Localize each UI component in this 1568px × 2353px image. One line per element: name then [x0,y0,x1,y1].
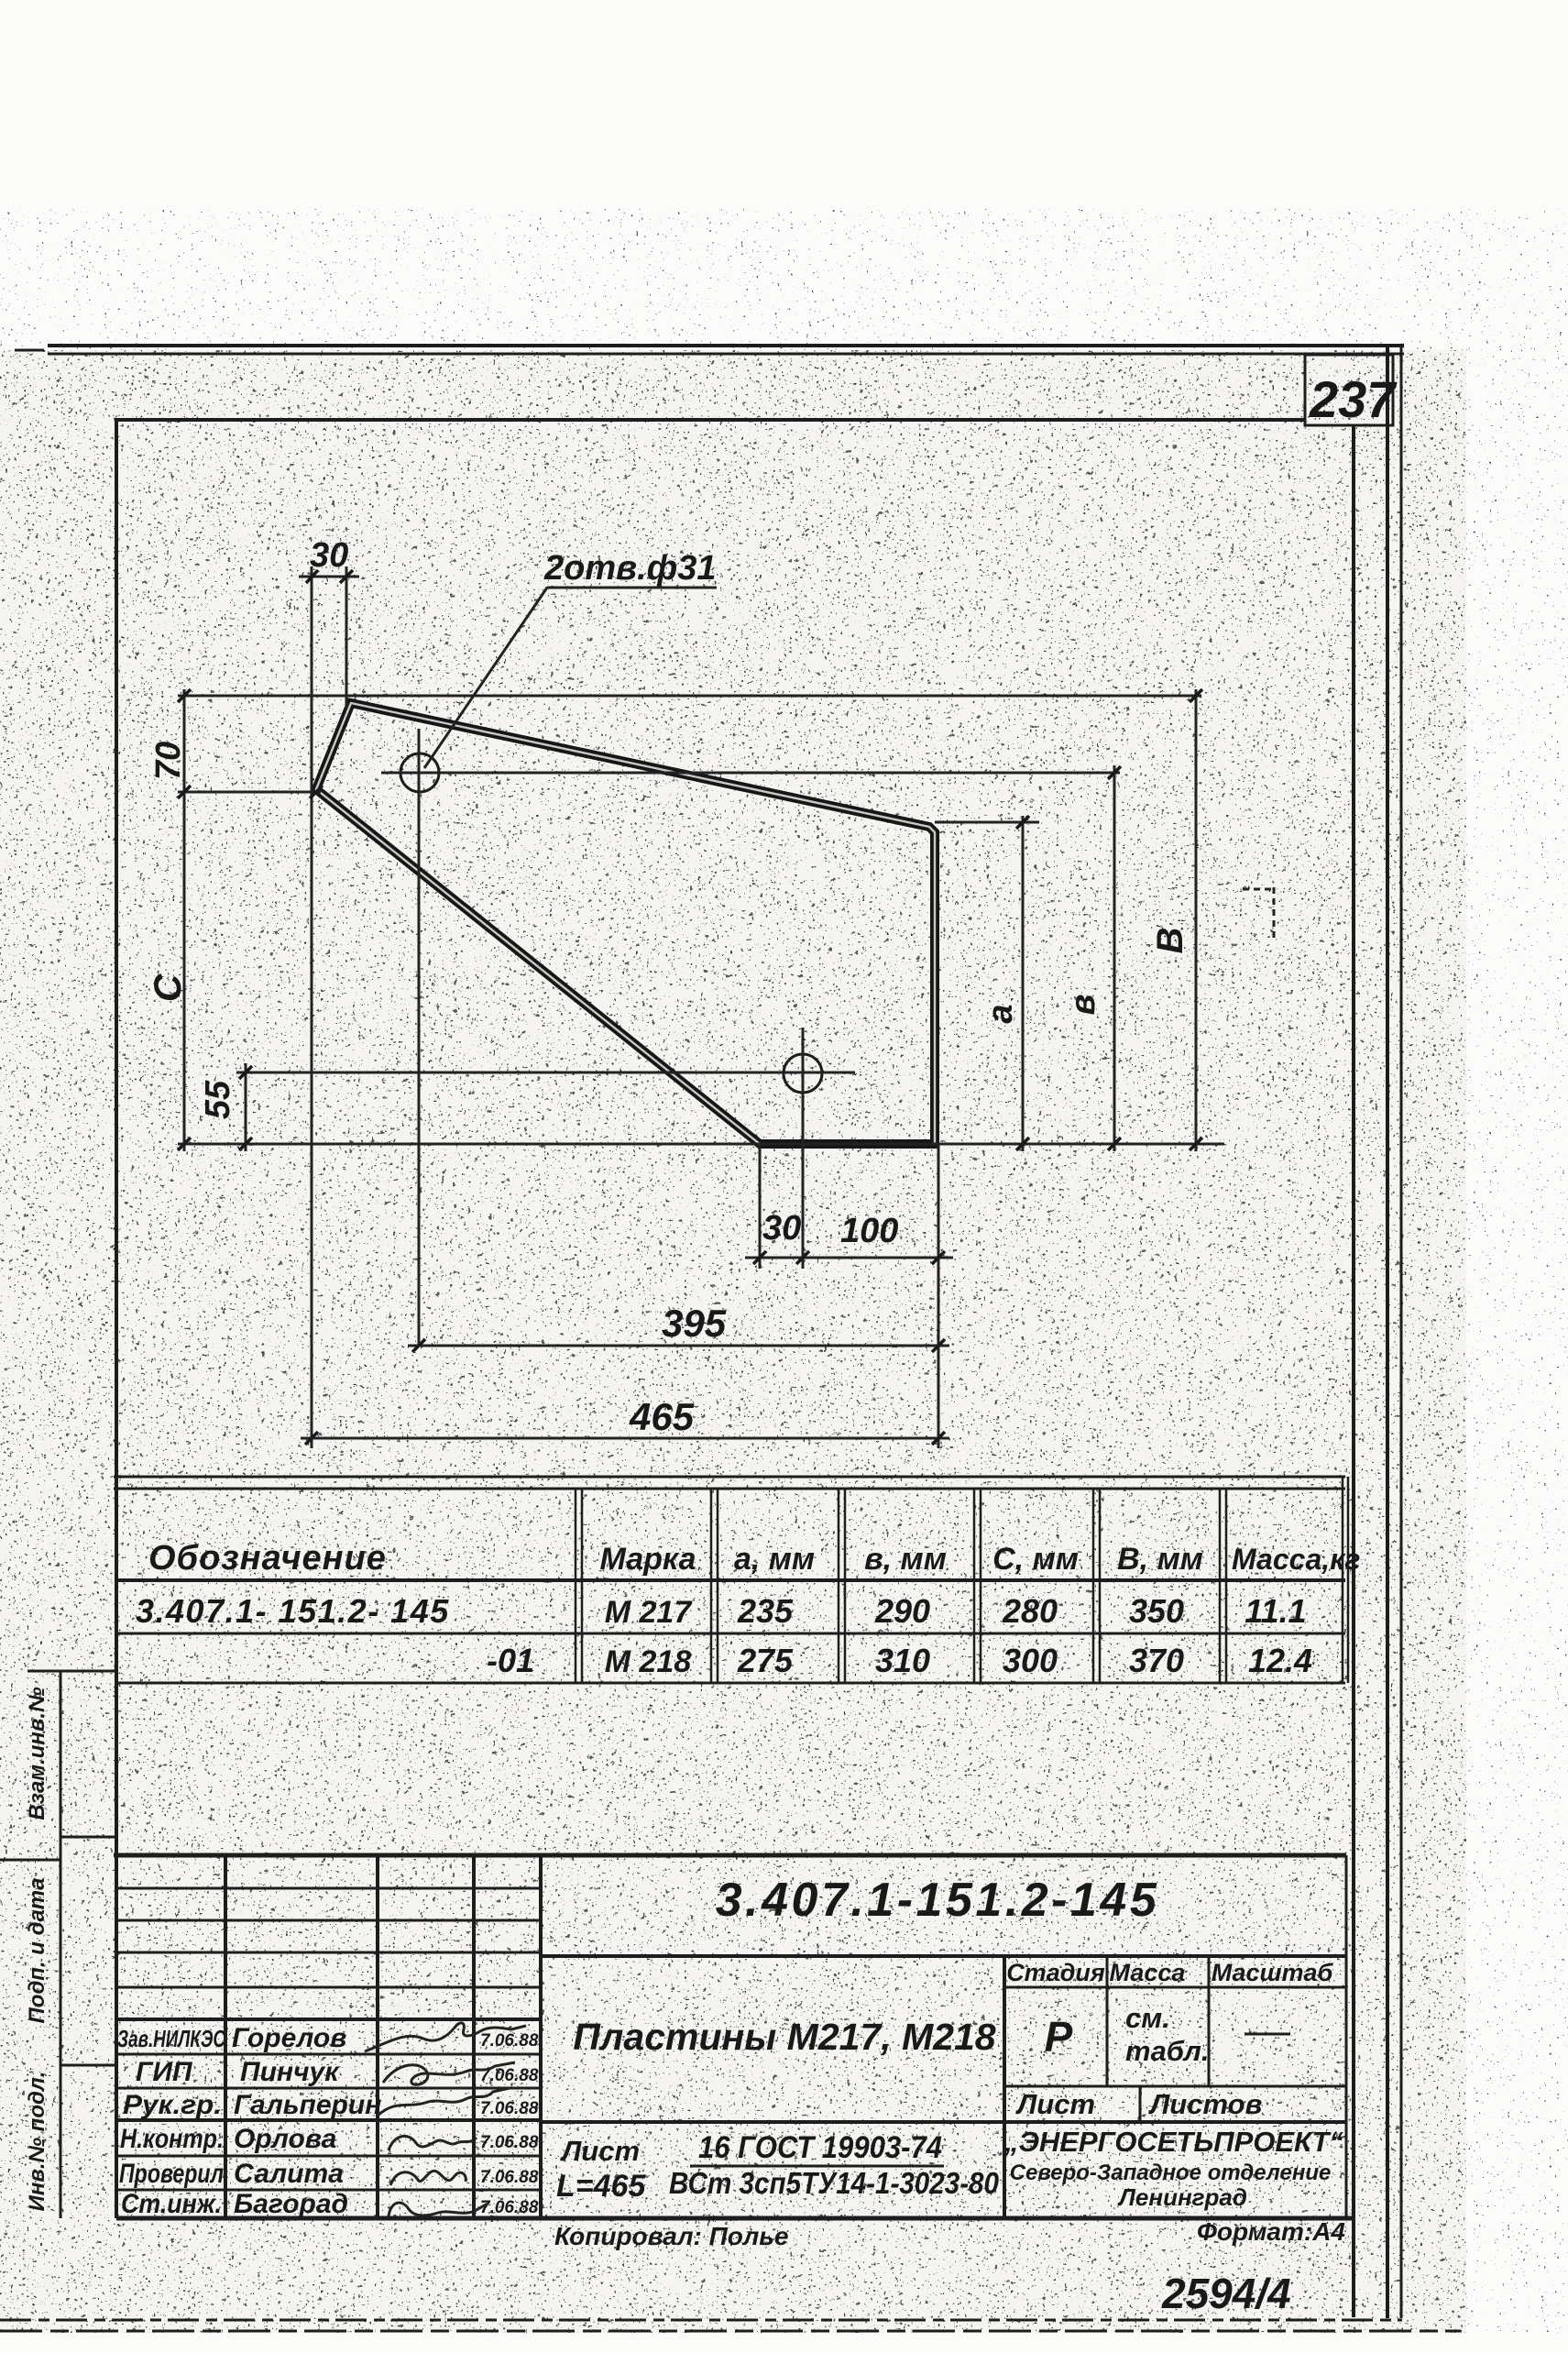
svg-text:Взам.инв.№: Взам.инв.№ [25,1687,49,1820]
svg-text:Подп. и дата: Подп. и дата [25,1878,49,2024]
svg-text:370: 370 [1129,1642,1184,1679]
svg-text:2594/4: 2594/4 [1161,2270,1291,2317]
svg-text:7.06.88: 7.06.88 [480,2133,539,2152]
svg-text:Листов: Листов [1148,2088,1262,2120]
svg-text:Пластины М217, М218: Пластины М217, М218 [573,2016,995,2058]
svg-text:7.06.88: 7.06.88 [480,2031,539,2051]
svg-text:7.06.88: 7.06.88 [480,2168,539,2187]
svg-text:350: 350 [1129,1592,1184,1630]
svg-text:16 ГОСТ 19903-74: 16 ГОСТ 19903-74 [698,2130,942,2165]
svg-text:Масса: Масса [1110,1959,1186,1986]
svg-text:395: 395 [662,1302,727,1345]
svg-text:300: 300 [1003,1642,1058,1679]
svg-text:а, мм: а, мм [734,1542,815,1577]
svg-text:465: 465 [629,1395,695,1438]
svg-text:Зав.НИЛКЭС: Зав.НИЛКЭС [117,2025,226,2052]
svg-text:30: 30 [762,1209,801,1248]
svg-text:30: 30 [310,536,348,575]
svg-text:а: а [981,1004,1020,1023]
svg-text:Марка: Марка [600,1542,696,1577]
svg-text:Инв.№ подл.: Инв.№ подл. [25,2072,49,2212]
svg-text:275: 275 [737,1642,794,1679]
svg-text:ВСт 3сп5ТУ14-1-3023-80: ВСт 3сп5ТУ14-1-3023-80 [669,2166,1000,2200]
svg-text:М 217: М 217 [605,1595,694,1630]
svg-text:Копировал: Полье: Копировал: Полье [554,2222,789,2250]
svg-text:„ЭНЕРГОСЕТЬПРОЕКТ“: „ЭНЕРГОСЕТЬПРОЕКТ“ [1003,2126,1343,2158]
svg-text:55: 55 [199,1080,237,1119]
svg-text:Северо-Западное отделение: Северо-Западное отделение [1010,2161,1332,2185]
svg-text:Н.контр.: Н.контр. [120,2124,224,2154]
svg-text:Салита: Салита [234,2159,344,2189]
svg-text:Лист: Лист [560,2135,640,2167]
svg-text:100: 100 [840,1212,898,1250]
svg-text:12.4: 12.4 [1248,1642,1312,1679]
svg-text:Рук.гр.: Рук.гр. [123,2090,222,2120]
svg-text:3.407.1-151.2-145: 3.407.1-151.2-145 [716,1874,1160,1927]
svg-text:280: 280 [1002,1592,1058,1630]
svg-text:М 218: М 218 [605,1644,692,1679]
svg-text:Р: Р [1045,2013,1073,2061]
svg-text:11.1: 11.1 [1245,1592,1306,1630]
svg-text:Лист: Лист [1015,2088,1095,2120]
svg-text:7.06.88: 7.06.88 [480,2099,539,2118]
svg-text:290: 290 [874,1592,930,1630]
svg-text:L=465: L=465 [556,2169,646,2204]
svg-text:7.06.88: 7.06.88 [480,2198,539,2217]
svg-text:ГИП: ГИП [136,2057,193,2087]
svg-text:Стадия: Стадия [1006,1959,1105,1986]
svg-text:235: 235 [737,1592,794,1630]
svg-text:Формат:А4: Формат:А4 [1197,2217,1345,2246]
svg-text:табл.: табл. [1125,2035,1210,2067]
svg-text:С, мм: С, мм [992,1542,1079,1577]
svg-text:Масштаб: Масштаб [1212,1959,1334,1986]
svg-text:Пинчук: Пинчук [240,2057,340,2087]
svg-text:Масса,кг: Масса,кг [1232,1543,1360,1576]
svg-text:С: С [146,973,189,1002]
svg-text:Багорад: Багорад [234,2189,348,2219]
svg-text:в: в [1064,995,1102,1016]
svg-text:в, мм: в, мм [864,1542,947,1577]
svg-text:Орлова: Орлова [234,2124,336,2154]
svg-text:Обозначение: Обозначение [148,1539,387,1578]
svg-text:310: 310 [875,1642,930,1679]
svg-text:В, мм: В, мм [1117,1542,1203,1577]
svg-text:см.: см. [1125,2002,1170,2034]
svg-text:3.407.1- 151.2- 145: 3.407.1- 151.2- 145 [136,1592,450,1630]
svg-text:В: В [1150,928,1190,954]
svg-text:2отв.ф31: 2отв.ф31 [543,549,717,588]
svg-text:Гальперин: Гальперин [234,2090,381,2120]
svg-text:Ст.инж.: Ст.инж. [121,2189,222,2219]
svg-text:237: 237 [1309,370,1398,428]
svg-text:-01: -01 [487,1642,534,1679]
svg-text:Ленинград: Ленинград [1117,2183,1247,2211]
svg-text:Проверил: Проверил [119,2159,224,2189]
svg-text:70: 70 [149,742,188,780]
svg-text:Горелов: Горелов [232,2023,346,2053]
